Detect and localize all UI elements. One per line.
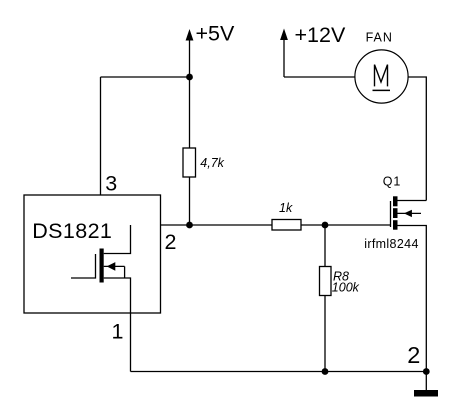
svg-text:100k: 100k <box>332 281 360 295</box>
resistor R8 <box>320 267 332 296</box>
wire resistor 4,7k to node 2 <box>189 177 191 225</box>
wire ground stem <box>425 372 427 391</box>
transistor Q1 body arrow <box>398 210 422 217</box>
resistor 4,7k <box>183 148 196 177</box>
svg-text:+5V: +5V <box>196 22 236 46</box>
DS1821 internal MOSFET gate <box>71 254 96 278</box>
junction dot node A <box>186 74 193 81</box>
svg-text:2: 2 <box>407 342 420 368</box>
transistor Q1 gate line <box>390 201 392 227</box>
wire fan motor to Q1 drain <box>408 77 426 201</box>
IC U1 DS1821 box <box>24 195 161 313</box>
wire bottom ground rail <box>131 371 427 373</box>
ground <box>414 390 438 397</box>
svg-text:irfml8244: irfml8244 <box>364 237 419 251</box>
svg-text:DS1821: DS1821 <box>32 219 112 243</box>
transistor Q1 channel bar top <box>393 196 398 206</box>
svg-text:3: 3 <box>105 171 117 195</box>
power +12V symbol <box>280 29 288 78</box>
Q1 drain lead <box>398 200 427 202</box>
wire node 2 horizontal bus <box>131 224 391 226</box>
wire resistor R8 to ground rail <box>324 296 326 372</box>
fan motor M1 <box>355 50 408 103</box>
wire node A horizontal (top left) <box>101 76 190 78</box>
svg-text:2: 2 <box>165 230 177 254</box>
svg-text:Q1: Q1 <box>383 174 401 188</box>
DS1821 internal MOSFET drain lead <box>104 225 131 254</box>
svg-text:1k: 1k <box>279 201 293 215</box>
junction dot bottom R8 <box>322 368 329 375</box>
junction dot node 2 / 4,7k <box>186 222 193 229</box>
svg-text:1: 1 <box>112 320 124 344</box>
transistor Q1 channel bar middle <box>393 208 398 218</box>
junction dot bottom right <box>423 368 430 375</box>
svg-text:FAN: FAN <box>366 30 393 44</box>
junction dot node 2 / R8 <box>322 222 329 229</box>
Q1 source lead <box>398 226 427 372</box>
svg-text:+12V: +12V <box>295 23 346 47</box>
svg-text:4,7k: 4,7k <box>200 156 224 170</box>
DS1821 internal MOSFET body arrow <box>104 262 125 278</box>
wire node 2 to resistor R8 <box>324 225 326 267</box>
wire +12V to fan motor <box>284 76 355 78</box>
power +5V symbol <box>186 29 194 77</box>
DS1821 internal MOSFET channel bar <box>100 249 104 283</box>
resistor 1k <box>272 220 301 231</box>
DS1821 internal MOSFET source lead / pin 1 wire <box>104 278 131 372</box>
transistor Q1 channel bar bottom <box>393 220 398 230</box>
wire pin 3 vertical <box>100 77 102 207</box>
wire +5V rail to resistor 4,7k <box>189 77 191 148</box>
